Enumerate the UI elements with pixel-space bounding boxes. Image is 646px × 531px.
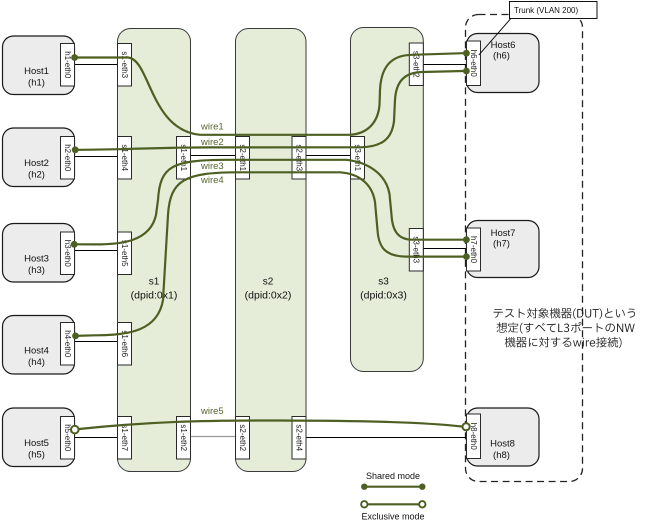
- switch s2: [236, 29, 307, 472]
- host Host5: [3, 408, 75, 467]
- svg-text:wire3: wire3: [200, 161, 224, 172]
- svg-text:h3-eth0: h3-eth0: [63, 240, 72, 268]
- port s1-eth7: [118, 417, 132, 460]
- svg-text:Shared mode: Shared mode: [366, 471, 420, 481]
- svg-text:(h6): (h6): [493, 51, 510, 62]
- port h5-eth0: [61, 417, 75, 460]
- port s1-eth5: [118, 232, 132, 275]
- host Host8: [467, 408, 540, 466]
- port h7-eth0: [467, 228, 481, 271]
- link s1-eth2 to s2-eth2 (gray): [191, 436, 236, 438]
- svg-text:Host6: Host6: [491, 40, 516, 51]
- svg-text:Host3: Host3: [24, 254, 49, 265]
- svg-text:wire4: wire4: [200, 175, 224, 186]
- trunk callout line: [479, 18, 512, 55]
- host Host4: [3, 316, 75, 375]
- wire4 h4 to h7: [76, 172, 464, 336]
- svg-text:s1-eth3: s1-eth3: [120, 51, 129, 78]
- svg-text:h4-eth0: h4-eth0: [63, 330, 72, 358]
- svg-text:s2: s2: [263, 277, 274, 288]
- DUT annotation text (Japanese): [494, 308, 636, 348]
- svg-text:(h7): (h7): [493, 239, 510, 250]
- wire3 h3 to h7: [74, 160, 463, 245]
- wire2 h2 to h6: [75, 71, 463, 150]
- svg-text:(dpid:0x2): (dpid:0x2): [245, 290, 292, 302]
- svg-text:wire5: wire5: [200, 406, 224, 417]
- port s1-eth6: [118, 323, 132, 366]
- svg-text:h2-eth0: h2-eth0: [63, 144, 72, 172]
- svg-text:(h2): (h2): [28, 170, 45, 181]
- exclusive ring h5: [71, 426, 79, 434]
- link h4-s1: [75, 341, 118, 343]
- svg-text:Host8: Host8: [490, 439, 515, 450]
- switch s1: [118, 29, 191, 472]
- link h3-s1: [75, 250, 118, 252]
- svg-text:s3-eth1: s3-eth1: [353, 144, 362, 171]
- svg-text:s1-eth2: s1-eth2: [179, 424, 188, 451]
- svg-text:s3: s3: [378, 277, 389, 288]
- port h6-eth0: [467, 41, 481, 86]
- svg-text:wire2: wire2: [200, 137, 224, 148]
- link h2-s1: [75, 156, 118, 158]
- port s3-eth2: [409, 43, 423, 86]
- port s3-eth1: [351, 137, 365, 180]
- port s3-eth3: [409, 229, 423, 272]
- trunk label box: [510, 2, 598, 19]
- port s1-eth2: [177, 417, 191, 460]
- svg-text:h6-eth0: h6-eth0: [469, 50, 478, 78]
- svg-text:Exclusive mode: Exclusive mode: [361, 512, 424, 522]
- host Host2: [3, 128, 75, 187]
- svg-text:(h1): (h1): [28, 78, 45, 89]
- svg-text:Host5: Host5: [24, 438, 49, 449]
- port h4-eth0: [61, 323, 75, 366]
- svg-text:Host7: Host7: [491, 228, 516, 239]
- svg-text:(h8): (h8): [493, 450, 510, 461]
- link s1-eth1 to s2-eth1: [191, 155, 236, 157]
- svg-text:s2-eth1: s2-eth1: [238, 144, 247, 171]
- svg-text:(dpid:0x3): (dpid:0x3): [360, 290, 407, 302]
- exclusive ring h8: [463, 423, 470, 430]
- svg-text:h1-eth0: h1-eth0: [63, 51, 72, 79]
- port s1-eth4: [118, 137, 132, 180]
- svg-text:(h4): (h4): [28, 357, 45, 368]
- svg-text:(h5): (h5): [28, 450, 45, 461]
- DUT dashed boundary: [466, 15, 583, 482]
- host Host7: [467, 221, 540, 278]
- port s2-eth4: [292, 417, 306, 460]
- svg-text:Host1: Host1: [24, 66, 49, 77]
- port h2-eth0: [61, 137, 75, 180]
- svg-text:s1-eth7: s1-eth7: [120, 424, 129, 451]
- svg-text:s2-eth2: s2-eth2: [238, 424, 247, 451]
- legend shared mode: [361, 471, 425, 490]
- legend exclusive mode: [361, 501, 425, 521]
- port s1-eth3: [118, 44, 132, 87]
- wire5 h5 to h8: [79, 420, 462, 429]
- shared-mode connection dots: [71, 54, 78, 61]
- link s3-eth3 to h7: [423, 248, 466, 250]
- svg-text:h7-eth0: h7-eth0: [469, 236, 478, 264]
- host Host6: [467, 34, 540, 93]
- host Host1: [3, 36, 75, 95]
- port s2-eth1: [236, 137, 250, 180]
- wire1 h1 to h6: [75, 53, 464, 135]
- switch s3: [351, 28, 424, 372]
- port h1-eth0: [61, 44, 75, 87]
- port s2-eth3: [292, 137, 306, 180]
- svg-text:s1-eth5: s1-eth5: [120, 240, 129, 267]
- svg-text:(h3): (h3): [28, 265, 45, 276]
- svg-text:(dpid:0x1): (dpid:0x1): [131, 290, 178, 302]
- svg-text:s1: s1: [149, 277, 160, 288]
- svg-text:wire1: wire1: [200, 121, 224, 132]
- port s2-eth2: [236, 417, 250, 460]
- link h1-s1: [75, 64, 118, 66]
- svg-text:Host4: Host4: [24, 346, 49, 357]
- svg-text:Host2: Host2: [24, 158, 49, 169]
- link s2-eth4 to h8: [306, 437, 466, 439]
- port s1-eth1: [177, 137, 191, 180]
- port h3-eth0: [61, 232, 75, 275]
- link s3-eth2 to h6: [423, 64, 466, 66]
- port h8-eth0: [467, 414, 481, 459]
- link h5-s1: [75, 437, 118, 439]
- link s2-eth3 to s3-eth1: [306, 155, 351, 157]
- host Host3: [3, 224, 75, 283]
- svg-text:Trunk (VLAN 200): Trunk (VLAN 200): [514, 6, 579, 15]
- svg-text:s2-eth4: s2-eth4: [294, 424, 303, 451]
- svg-text:s2-eth3: s2-eth3: [294, 144, 303, 171]
